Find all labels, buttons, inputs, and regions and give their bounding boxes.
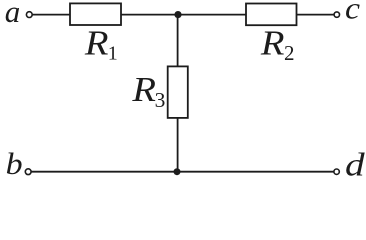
svg-text:2: 2	[284, 41, 295, 65]
svg-text:3: 3	[155, 88, 166, 112]
svg-text:1: 1	[108, 42, 118, 64]
svg-text:R: R	[84, 24, 109, 63]
svg-text:a: a	[5, 0, 21, 29]
svg-text:R: R	[131, 70, 156, 109]
svg-text:b: b	[6, 146, 23, 181]
svg-text:c: c	[345, 0, 360, 26]
svg-text:d: d	[345, 147, 365, 183]
svg-text:R: R	[260, 24, 285, 63]
